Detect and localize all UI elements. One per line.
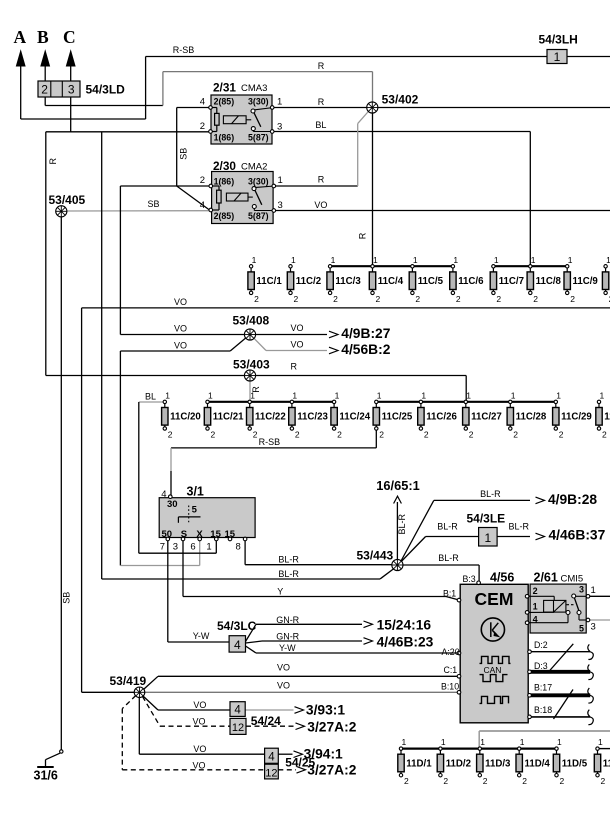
svg-text:11C/9: 11C/9 [573,276,599,287]
svg-text:VO: VO [174,324,187,334]
svg-text:1: 1 [466,390,471,400]
svg-text:11D/1: 11D/1 [406,758,432,769]
svg-text:1: 1 [556,390,561,400]
svg-text:2/31: 2/31 [213,81,236,95]
svg-text:1: 1 [531,255,536,265]
svg-text:11C/7: 11C/7 [499,276,524,287]
svg-text:R: R [318,97,325,107]
svg-text:11D/6: 11D/6 [603,758,610,769]
svg-text:1: 1 [554,50,561,64]
svg-text:VO: VO [174,340,187,350]
svg-text:3: 3 [173,542,178,553]
svg-text:R: R [358,232,368,239]
svg-text:B:17: B:17 [534,683,552,693]
svg-text:11C/28: 11C/28 [516,412,547,423]
svg-text:3(30): 3(30) [248,177,269,187]
svg-text:11C/8: 11C/8 [536,276,562,287]
svg-text:11C/27: 11C/27 [471,412,502,423]
svg-text:2: 2 [560,776,565,786]
svg-text:1: 1 [331,255,336,265]
svg-text:4/56: 4/56 [490,571,514,585]
svg-text:R: R [251,386,261,393]
svg-text:2: 2 [294,294,299,304]
svg-text:1: 1 [600,390,605,400]
svg-text:15/24:16: 15/24:16 [377,618,432,633]
svg-text:B: B [37,27,49,47]
svg-text:1: 1 [208,390,213,400]
svg-text:1: 1 [484,531,491,545]
svg-text:53/408: 53/408 [233,314,270,328]
svg-text:B:1: B:1 [443,588,456,598]
svg-text:5(87): 5(87) [248,133,269,143]
svg-text:2: 2 [522,776,527,786]
svg-text:11C/2: 11C/2 [296,276,321,287]
svg-text:3: 3 [277,122,282,133]
svg-text:11C/5: 11C/5 [418,276,444,287]
svg-text:1: 1 [292,390,297,400]
svg-text:11C/29: 11C/29 [561,412,592,423]
svg-text:2: 2 [513,430,518,440]
svg-text:1: 1 [278,175,283,186]
svg-text:BL-R: BL-R [278,555,299,565]
svg-text:B:3: B:3 [463,574,476,584]
svg-text:1: 1 [252,255,257,265]
svg-text:BL-R: BL-R [480,489,501,499]
svg-text:2: 2 [404,776,409,786]
svg-text:2: 2 [200,175,205,186]
svg-text:3: 3 [278,200,283,211]
svg-text:1: 1 [568,255,573,265]
svg-text:30: 30 [167,499,178,510]
svg-text:2: 2 [533,586,538,596]
svg-text:53/419: 53/419 [110,674,147,688]
svg-text:16/65:1: 16/65:1 [376,478,419,493]
svg-text:CAN: CAN [484,665,502,675]
svg-text:4: 4 [234,638,241,652]
svg-text:2: 2 [483,776,488,786]
svg-text:7: 7 [160,542,165,553]
svg-text:CMA2: CMA2 [241,162,267,173]
svg-text:GN-R: GN-R [276,615,299,625]
svg-text:4: 4 [200,200,205,211]
svg-text:1: 1 [165,390,170,400]
svg-text:SB: SB [179,148,189,160]
svg-text:B:18: B:18 [534,705,552,715]
svg-text:Y-W: Y-W [193,631,210,641]
svg-text:1: 1 [277,97,282,108]
svg-text:SB: SB [148,199,160,209]
svg-text:BL-R: BL-R [437,522,458,532]
svg-text:2/61: 2/61 [534,571,558,585]
svg-text:11D/2: 11D/2 [446,758,471,769]
svg-text:1: 1 [557,737,562,747]
svg-text:11C/25: 11C/25 [382,412,413,423]
svg-text:4: 4 [161,489,166,500]
svg-text:3/1: 3/1 [187,485,204,499]
svg-text:3: 3 [579,585,584,595]
svg-text:BL: BL [145,392,156,402]
svg-text:3/27A:2: 3/27A:2 [307,720,356,735]
svg-text:VO: VO [193,761,206,771]
svg-text:53/403: 53/403 [233,358,270,372]
svg-text:1: 1 [291,255,296,265]
svg-text:2: 2 [200,121,205,132]
svg-text:2: 2 [333,294,338,304]
svg-text:2: 2 [469,430,474,440]
svg-text:BL-R: BL-R [397,513,407,534]
svg-text:2(85): 2(85) [214,211,235,221]
svg-text:54/3LC: 54/3LC [217,619,257,633]
svg-text:2: 2 [168,430,173,440]
svg-text:1: 1 [520,737,525,747]
svg-text:5: 5 [192,505,198,516]
svg-text:2: 2 [456,294,461,304]
svg-text:4: 4 [200,97,205,108]
svg-text:R-SB: R-SB [259,437,281,447]
svg-text:2: 2 [337,430,342,440]
svg-text:CMI5: CMI5 [561,574,584,585]
svg-text:11D/4: 11D/4 [525,758,551,769]
svg-text:2: 2 [211,430,216,440]
svg-text:4/9B:28: 4/9B:28 [548,492,597,507]
svg-text:54/3LH: 54/3LH [539,33,578,47]
svg-text:54/3LD: 54/3LD [86,83,126,97]
svg-text:Y-W: Y-W [279,643,296,653]
svg-text:1: 1 [402,737,407,747]
svg-text:1: 1 [413,255,418,265]
svg-text:11C/6: 11C/6 [458,276,484,287]
svg-text:4: 4 [268,751,275,763]
svg-text:1: 1 [206,542,211,553]
svg-text:2: 2 [443,776,448,786]
svg-text:11C/21: 11C/21 [213,412,244,423]
svg-text:4/46B:37: 4/46B:37 [549,528,606,543]
svg-text:BL: BL [315,120,326,130]
svg-text:11C/1: 11C/1 [256,276,282,287]
svg-text:11D/5: 11D/5 [562,758,588,769]
svg-text:5(87): 5(87) [248,211,269,221]
svg-text:VO: VO [291,340,304,350]
svg-text:R-SB: R-SB [173,45,195,55]
svg-text:54/24: 54/24 [251,714,281,728]
svg-text:1: 1 [591,585,596,596]
svg-text:2/30: 2/30 [213,159,236,173]
svg-text:R: R [48,158,58,165]
svg-text:VO: VO [193,744,206,754]
svg-text:4/56B:2: 4/56B:2 [341,342,390,357]
svg-text:1: 1 [480,737,485,747]
svg-text:3: 3 [68,83,75,97]
svg-text:1: 1 [335,390,340,400]
svg-text:8: 8 [236,542,241,553]
svg-text:2: 2 [559,430,564,440]
svg-text:R: R [318,175,325,185]
svg-text:D:3: D:3 [534,661,548,671]
svg-text:1: 1 [453,255,458,265]
svg-text:2: 2 [415,294,420,304]
svg-text:4: 4 [234,705,241,717]
svg-text:2: 2 [253,430,258,440]
svg-text:53/402: 53/402 [382,93,419,107]
svg-text:2: 2 [41,83,48,97]
svg-text:11C/23: 11C/23 [297,412,328,423]
svg-text:1: 1 [606,255,610,265]
svg-text:2: 2 [379,430,384,440]
svg-text:2: 2 [496,294,501,304]
svg-text:11C/3: 11C/3 [335,276,361,287]
svg-text:11C/4: 11C/4 [378,276,404,287]
svg-text:2: 2 [376,294,381,304]
svg-text:C: C [63,27,76,47]
svg-text:3: 3 [591,622,596,633]
svg-text:VO: VO [291,323,304,333]
svg-text:54/3LE: 54/3LE [467,512,506,526]
svg-text:53/443: 53/443 [357,549,394,563]
svg-text:1(86): 1(86) [214,133,235,143]
svg-text:BL-R: BL-R [278,569,299,579]
svg-text:A:20: A:20 [442,647,460,657]
svg-text:BL-R: BL-R [509,522,530,532]
svg-text:D:2: D:2 [534,640,548,650]
svg-text:53/405: 53/405 [49,193,86,207]
svg-text:SB: SB [62,592,72,604]
svg-text:2: 2 [570,294,575,304]
svg-text:5: 5 [579,624,584,634]
svg-text:2: 2 [424,430,429,440]
svg-text:CEM: CEM [475,589,514,609]
svg-text:VO: VO [193,717,206,727]
svg-text:3/27A:2: 3/27A:2 [307,763,356,778]
svg-text:4/9B:27: 4/9B:27 [341,326,390,341]
svg-text:1: 1 [533,602,538,612]
svg-text:1: 1 [511,390,516,400]
svg-text:11C/20: 11C/20 [170,412,201,423]
svg-text:B:10: B:10 [441,681,459,691]
svg-text:11C/22: 11C/22 [255,412,286,423]
svg-text:31/6: 31/6 [34,769,58,783]
svg-text:11C/26: 11C/26 [426,412,457,423]
svg-text:1(86): 1(86) [214,177,235,187]
svg-text:1: 1 [441,737,446,747]
svg-text:R: R [318,61,325,71]
svg-text:2: 2 [602,430,607,440]
svg-text:C:1: C:1 [444,665,458,675]
svg-text:VO: VO [193,700,206,710]
svg-text:1: 1 [377,390,382,400]
svg-text:12: 12 [265,767,277,779]
svg-text:11C/24: 11C/24 [339,412,370,423]
svg-text:2: 2 [533,294,538,304]
svg-text:1: 1 [421,390,426,400]
svg-text:VO: VO [174,297,187,307]
svg-text:3/93:1: 3/93:1 [306,703,345,718]
svg-text:2: 2 [601,776,606,786]
svg-text:1: 1 [494,255,499,265]
svg-text:VO: VO [277,663,290,673]
svg-text:R: R [291,362,298,372]
svg-text:BL-R: BL-R [438,553,459,563]
svg-text:VO: VO [314,200,327,210]
svg-text:11C/30: 11C/30 [604,412,610,423]
svg-text:2: 2 [254,294,259,304]
svg-text:1: 1 [373,255,378,265]
svg-text:GN-R: GN-R [276,632,299,642]
svg-text:CMA3: CMA3 [241,83,267,94]
svg-text:2(85): 2(85) [214,97,235,107]
svg-text:Y: Y [277,587,283,597]
svg-text:3(30): 3(30) [248,97,269,107]
svg-text:4/46B:23: 4/46B:23 [377,635,434,650]
svg-text:3/94:1: 3/94:1 [304,747,343,762]
svg-text:11D/3: 11D/3 [485,758,511,769]
svg-text:VO: VO [277,681,290,691]
svg-text:12: 12 [232,722,244,734]
svg-text:2: 2 [295,430,300,440]
svg-text:A: A [14,27,27,47]
svg-text:6: 6 [190,542,195,553]
svg-text:1: 1 [598,737,603,747]
